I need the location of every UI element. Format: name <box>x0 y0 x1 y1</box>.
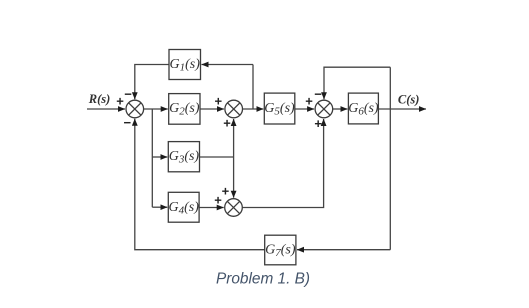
svg-text:+: + <box>215 94 223 109</box>
svg-text:G2(s): G2(s) <box>169 101 200 118</box>
svg-text:R(s): R(s) <box>88 92 111 106</box>
svg-text:+: + <box>222 184 230 199</box>
svg-text:G6(s): G6(s) <box>348 101 379 118</box>
svg-text:+: + <box>314 116 322 131</box>
svg-text:G7(s): G7(s) <box>265 243 296 260</box>
svg-text:−: − <box>314 87 322 102</box>
svg-text:−: − <box>124 87 132 102</box>
svg-text:+: + <box>223 116 231 131</box>
svg-text:C(s): C(s) <box>398 93 420 107</box>
svg-text:G5(s): G5(s) <box>264 101 295 118</box>
svg-text:G4(s): G4(s) <box>168 200 199 217</box>
svg-text:+: + <box>116 94 124 109</box>
svg-text:+: + <box>305 94 313 109</box>
svg-text:G3(s): G3(s) <box>169 149 200 166</box>
svg-text:−: − <box>124 115 132 130</box>
svg-text:Problem 1. B): Problem 1. B) <box>216 271 310 288</box>
svg-text:G1(s): G1(s) <box>169 57 200 74</box>
